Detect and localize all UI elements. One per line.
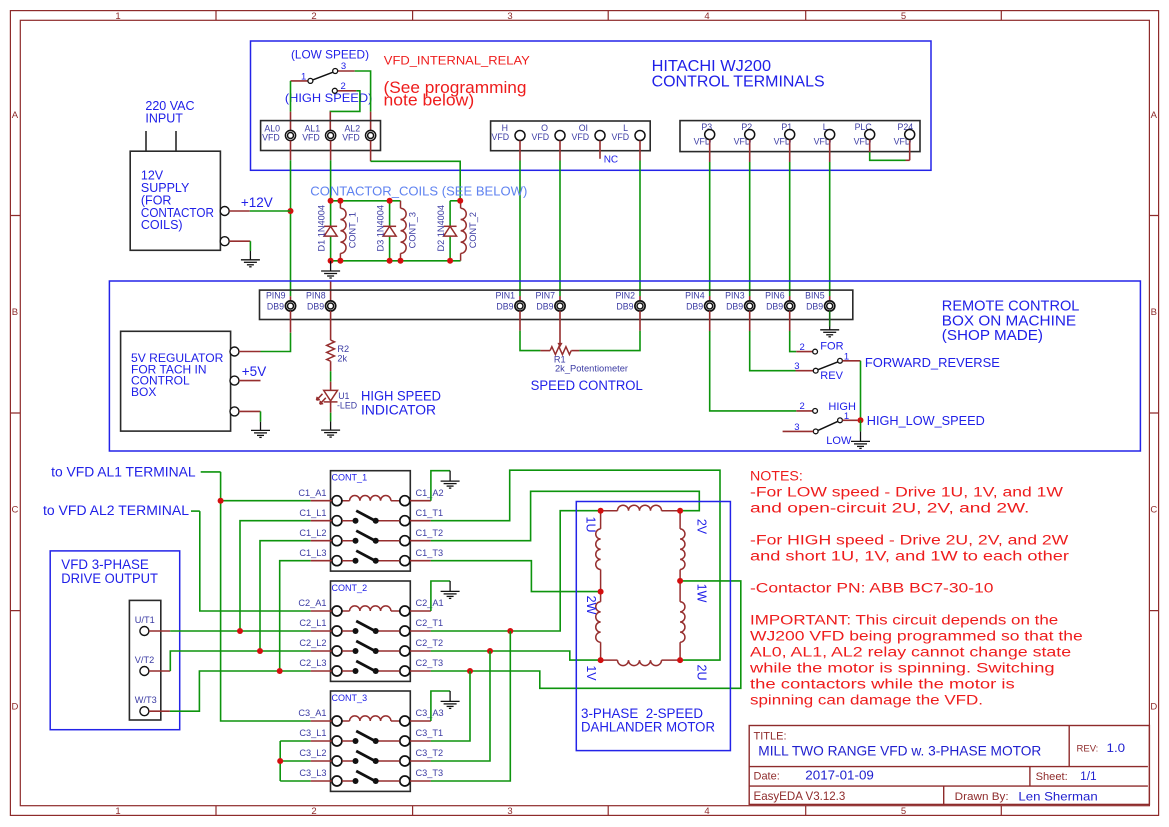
svg-text:5: 5 [901,806,906,817]
svg-text:Len Sherman: Len Sherman [1018,789,1097,803]
svg-text:REV: REV [820,370,843,382]
svg-text:REV:: REV: [1077,743,1099,754]
wire R2 to LED [330,361,332,371]
svg-text:AL0, AL1, AL2 relay cannot cha: AL0, AL1, AL2 relay cannot change state [750,645,1071,661]
diode D1 wire [330,201,332,261]
LED U1 [317,390,338,404]
title block [749,726,1149,805]
svg-text:Drawn By:: Drawn By: [955,791,1009,803]
svg-text:BOX ON MACHINE: BOX ON MACHINE [942,313,1077,329]
svg-text:C1_T2: C1_T2 [416,528,444,538]
node 2W [598,589,604,595]
node HIGH pin1 junction [858,417,864,423]
svg-text:and short 1U, 1V, and 1W to ea: and short 1U, 1V, and 1W to each other [750,549,1069,565]
PLC pin [865,130,875,140]
svg-text:DB9: DB9 [616,301,633,311]
node CONT_1 coil top [337,198,343,204]
wire 12V gnd red [229,240,250,242]
svg-text:C1_T1: C1_T1 [416,508,444,518]
AL1 pin [326,130,336,140]
PIN6 DB9 pin [785,301,795,311]
svg-text:C1_A2: C1_A2 [416,488,444,498]
svg-text:DB9: DB9 [267,301,284,311]
wire R1 to PIN2 [571,350,579,352]
L pin [635,131,645,141]
HITACHI control terminals box [251,41,932,170]
wire LED to ground [330,402,332,413]
svg-text:EasyEDA V3.12.3: EasyEDA V3.12.3 [754,789,846,803]
PIN7 DB9 pin [555,301,565,311]
svg-text:IMPORTANT: This circuit depend: IMPORTANT: This circuit depends on the [750,613,1058,629]
svg-text:1W: 1W [695,584,709,603]
svg-text:MILL TWO RANGE VFD w. 3-PHASE: MILL TWO RANGE VFD w. 3-PHASE MOTOR [758,743,1041,759]
svg-text:DB9: DB9 [686,301,703,311]
wire +12V green [250,210,291,212]
svg-text:VFD 3-PHASE: VFD 3-PHASE [61,557,149,572]
svg-text:1V: 1V [584,665,598,681]
svg-text:2k_Potentiometer: 2k_Potentiometer [555,364,628,374]
wire AL2 tag stub [191,510,200,512]
coils top rail right [450,200,461,202]
svg-text:C2_T3: C2_T3 [416,658,444,668]
node +12V junction [288,208,294,214]
node D3 top [387,198,393,204]
wire W/T3 to C1_L3/C2_L3 [149,710,170,712]
wire C2_T2 to 1V [431,651,601,660]
node CONT_1 coil bottom [337,258,343,264]
svg-text:D: D [11,702,18,713]
NC stub on OI [599,141,601,159]
diode D2 [444,226,457,236]
motor winding right lower [680,602,685,643]
OI pin [595,131,605,141]
svg-text:PIN9: PIN9 [266,290,286,300]
node D2 bottom [447,258,453,264]
node C2_T2/C3_T2 [487,648,493,654]
svg-text:VFD: VFD [491,132,509,142]
PIN9 DB9 pin [285,301,295,311]
wire C1_T3 to 2W [431,561,601,592]
svg-text:PIN3: PIN3 [725,290,745,300]
PIN3 DB9 pin [745,301,755,311]
node 2U [677,657,683,663]
wire AL1 vertical to C1_A1 and C3_A1 [221,472,311,721]
svg-text:C3_T2: C3_T2 [416,748,444,758]
svg-text:C3_L2: C3_L2 [299,748,326,758]
svg-text:DB9: DB9 [496,301,513,311]
svg-text:CONT_1: CONT_1 [332,473,368,484]
svg-text:C3_A1: C3_A1 [298,708,326,718]
ground HIGH_LOW [851,431,870,448]
svg-text:PIN4: PIN4 [685,290,705,300]
svg-text:C1_T3: C1_T3 [416,548,444,558]
svg-text:2W: 2W [584,596,598,615]
svg-text:HIGH_LOW_SPEED: HIGH_LOW_SPEED [867,413,985,428]
wire AL2 vertical to C2_A1 [200,511,311,611]
contactor CONT_2 [298,581,443,681]
diode D1 [324,226,337,236]
svg-text:CONT_2: CONT_2 [332,583,368,594]
svg-text:D2 1N4004: D2 1N4004 [436,205,446,251]
wire C3_L1-L2-L3 tie [280,741,311,781]
svg-text:BIN5: BIN5 [805,290,825,300]
wire +12V red [229,210,250,212]
R1 wiper wire [559,311,561,344]
wire AL2 to CONT_2 coil [370,141,372,162]
node CONT_3 coil bottom [398,258,404,264]
svg-text:C1_L2: C1_L2 [299,528,326,538]
svg-text:2: 2 [341,81,346,92]
12V supply terminal 2 [220,237,229,246]
svg-text:COILS): COILS) [141,218,183,232]
wire PIN9 to 5V reg [290,311,292,333]
O pin [555,131,565,141]
svg-text:Sheet:: Sheet: [1036,771,1068,783]
relay SW1 pin3 [333,69,338,74]
coils top rail [331,200,401,202]
wire FOR pin1 down to HIGH pin1 [842,360,860,362]
wire L to BIN5 [829,140,831,163]
svg-text:C3_T3: C3_T3 [416,768,444,778]
svg-text:note below): note below) [384,91,475,110]
wire PIN6 to FOR [789,311,791,331]
svg-text:C2_L3: C2_L3 [299,658,326,668]
wire C2_A1 to ground [431,581,450,611]
wire U/T1 to C1_L1/C2_L1 [149,630,170,632]
5V regulator terminals [230,347,239,356]
contactor coil CONT_3 [400,201,402,261]
svg-text:FOR: FOR [820,341,843,353]
remote control box [109,281,1140,451]
wire into PIN8 from coil ground [330,282,332,301]
diode D3 wire [389,201,391,261]
ground C3_A3 [441,691,460,708]
wire relay pin1 to AL0 (green) [290,81,292,112]
relay SW1 pin2 [332,88,337,93]
svg-text:HIGH SPEED: HIGH SPEED [361,388,441,403]
svg-text:U1: U1 [338,391,349,401]
svg-text:C2_L2: C2_L2 [299,638,326,648]
svg-text:C1_A1: C1_A1 [298,488,326,498]
wire HIGH pin1 to ground [842,419,857,421]
diode D2 wire [449,201,451,261]
svg-text:INPUT: INPUT [145,111,183,125]
wire C1_T2 to 2V [431,491,699,540]
svg-text:CONTROL TERMINALS: CONTROL TERMINALS [652,74,825,91]
svg-text:2U: 2U [695,665,709,681]
contactor CONT_1 [298,471,443,571]
node AL1/C1_A1 [218,498,224,504]
ground LED [321,421,340,437]
svg-text:REMOTE CONTROL: REMOTE CONTROL [942,299,1080,315]
coils bottom rail [331,260,461,262]
motor winding right upper [679,511,681,660]
svg-text:V/T2: V/T2 [135,655,154,665]
svg-text:3: 3 [507,806,512,817]
H pin [515,131,525,141]
wire relay pin2 to AL1 (green) [330,91,360,112]
svg-text:1: 1 [301,71,306,82]
svg-text:2k: 2k [337,354,347,364]
svg-text:LOW: LOW [826,435,852,447]
terminal block P3-P24 [680,121,920,152]
220VAC input stubs [146,131,176,151]
svg-text:2V: 2V [695,519,709,535]
AL2 pin [366,130,376,140]
svg-text:(SHOP MADE): (SHOP MADE) [942,328,1043,344]
PLC-P24 jumper wire red [870,140,910,161]
relay SW1 pin1 [308,78,313,83]
svg-text:FORWARD_REVERSE: FORWARD_REVERSE [865,355,1000,370]
svg-text:D3 1N4004: D3 1N4004 [375,205,385,251]
svg-text:B: B [12,307,18,318]
svg-text:DB9: DB9 [806,301,823,311]
node V/T2 branch [257,648,263,654]
potentiometer R1 [550,347,571,355]
wire AL0 to PIN9 [290,141,292,161]
svg-text:PIN6: PIN6 [765,290,785,300]
svg-text:VFD: VFD [302,133,320,143]
wire O to PIN7 [559,141,561,161]
switch FORWARD_REVERSE lever [818,362,838,370]
HIGH pin3 [813,429,818,434]
svg-text:3-PHASE 2-SPEED: 3-PHASE 2-SPEED [581,706,703,721]
svg-text:CONT_3: CONT_3 [408,212,418,248]
wire L to PIN2 [639,141,641,161]
svg-text:SPEED CONTROL: SPEED CONTROL [531,378,644,393]
svg-text:CONT_2: CONT_2 [468,212,478,248]
svg-text:PIN7: PIN7 [535,290,555,300]
wire V/T2 to C1_L2/C2_L2 [149,670,170,672]
svg-text:W/T3: W/T3 [135,695,157,705]
wire +5V stub [239,380,261,382]
svg-text:CONTACTOR_COILS (SEE BELOW): CONTACTOR_COILS (SEE BELOW) [310,183,527,198]
node 2V [677,508,683,514]
diode D3 [383,226,396,236]
svg-text:C3_T1: C3_T1 [416,728,444,738]
svg-text:DAHLANDER MOTOR: DAHLANDER MOTOR [581,720,715,735]
PIN8 DB9 pin [326,301,336,311]
contactor coil CONT_1 [339,201,341,261]
svg-text:+12V: +12V [241,195,273,210]
wire C1_A2 to ground [431,471,450,501]
PIN1 DB9 pin [515,301,525,311]
svg-text:-For HIGH speed - Drive 2U, 2V: -For HIGH speed - Drive 2U, 2V, and 2W [750,533,1069,549]
P2 pin [745,130,755,140]
svg-text:DB9: DB9 [766,301,783,311]
svg-text:U/T1: U/T1 [135,615,155,625]
svg-text:2: 2 [311,806,316,817]
svg-text:PIN1: PIN1 [495,290,515,300]
svg-text:+5V: +5V [242,364,266,379]
ground C2_A1 [441,581,460,598]
svg-text:4: 4 [704,11,709,22]
svg-text:1: 1 [115,11,120,22]
HIGH pin2 [813,409,818,414]
svg-text:C1_L1: C1_L1 [299,508,326,518]
V/T2 pin [140,667,149,676]
node C3_L2 [277,758,283,764]
ground 12V supply [241,251,260,267]
wire C2_T3 to 1W [431,581,741,688]
svg-text:C2_A1: C2_A1 [298,598,326,608]
P3 pin [705,130,715,140]
svg-text:2: 2 [311,11,316,22]
svg-text:PIN8: PIN8 [306,290,326,300]
switch HIGH_LOW lever [818,421,838,430]
svg-text:1.0: 1.0 [1107,741,1126,755]
relay SW1 pin1 wire [291,80,308,82]
svg-text:C: C [1150,505,1157,516]
wire P2 to PIN3 [749,140,751,163]
svg-text:DRIVE OUTPUT: DRIVE OUTPUT [61,571,158,586]
12V supply terminal 1 [220,207,229,216]
wire C1_T1 to 2U [431,470,720,660]
node W/T3 branch [277,668,283,674]
svg-text:C2_A1: C2_A1 [416,598,444,608]
FOR pin2 [813,349,818,354]
wire relay pin3 to AL2 (red) [370,112,372,131]
svg-text:-For LOW speed - Drive 1U, 1V,: -For LOW speed - Drive 1U, 1V, and 1W [750,485,1064,501]
LOW pin3 stub [783,430,814,432]
terminal block AL0-AL2 [261,121,381,151]
svg-text:VFD: VFD [611,132,629,142]
terminal block H-O-OI-L [491,121,651,151]
HIGH pin1 [838,418,843,423]
wire BIN5 to ground [829,311,831,327]
BIN5 DB9 pin [825,301,835,311]
svg-text:3: 3 [794,361,799,372]
svg-text:to VFD AL1 TERMINAL: to VFD AL1 TERMINAL [51,464,196,479]
svg-text:HITACHI WJ200: HITACHI WJ200 [652,58,772,75]
node 1V [598,657,604,663]
wire 12V gnd green [249,241,251,251]
node C2_T3/C3_T1 [467,668,473,674]
wire AL1 tag stub [201,471,221,473]
svg-text:D: D [1150,702,1157,713]
ground C1_A2 [441,471,460,488]
svg-text:A: A [1151,110,1158,121]
wire H to PIN1 [519,141,521,161]
wire PIN4 to HIGH [709,311,711,331]
U/T1 pin [140,627,149,636]
relay SW1 pin2 wire [337,90,356,92]
svg-text:2: 2 [800,342,805,353]
svg-text:INDICATOR: INDICATOR [361,403,436,418]
AL0 pin [285,130,295,140]
svg-text:CONT_3: CONT_3 [332,693,368,704]
svg-text:DB9: DB9 [307,301,324,311]
svg-text:DB9: DB9 [726,301,743,311]
svg-text:CONT_1: CONT_1 [348,212,358,248]
wire 5Vreg gnd [239,410,261,412]
FOR pin1 [838,358,843,363]
motor box [576,502,730,751]
svg-text:D1 1N4004: D1 1N4004 [316,205,326,251]
PLC-P24 jumper wire green [870,152,906,160]
wire P1 to PIN6 [789,140,791,163]
wire PIN3 to REV [749,311,751,331]
svg-text:3: 3 [341,61,346,72]
svg-text:spinning can damage the VFD.: spinning can damage the VFD. [750,693,983,709]
node 1W [677,578,683,584]
ruler ticks left [10,216,20,611]
svg-text:C2_T1: C2_T1 [416,618,444,628]
svg-text:2017-01-09: 2017-01-09 [805,769,874,783]
motor winding top [601,510,681,512]
wire relay pin2 to AL1 (red) [329,112,331,131]
DB9 terminal strip [260,290,853,319]
svg-text:the contactors while the motor: the contactors while the motor is [750,677,1015,693]
P24 pin [905,130,915,140]
svg-text:PIN2: PIN2 [615,290,635,300]
node C2_T1/C3_T3 [507,628,513,634]
svg-text:VFD: VFD [571,132,589,142]
svg-text:-Contactor PN: ABB BC7-30-10: -Contactor PN: ABB BC7-30-10 [750,581,994,597]
wire PIN1 to R1 [519,311,521,331]
FOR pin3 [813,368,818,373]
svg-text:NOTES:: NOTES: [750,469,803,485]
motor winding left lower [596,602,601,643]
P1 pin [785,130,795,140]
svg-text:-LED: -LED [337,401,357,411]
L pin [825,130,835,140]
svg-text:1: 1 [115,806,120,817]
svg-text:VFD: VFD [342,133,360,143]
node D3 bottom [387,258,393,264]
ground BIN5 [820,327,839,337]
svg-text:3: 3 [507,11,512,22]
svg-text:C: C [11,505,18,516]
svg-text:B: B [1151,307,1157,318]
5V regulator box [121,331,231,431]
wire relay pin3 to AL2 (green) [355,71,371,112]
contactor coil CONT_2 [460,201,462,261]
contactor CONT_3 [298,691,443,791]
svg-text:C3_L3: C3_L3 [299,768,326,778]
svg-text:C2_T2: C2_T2 [416,638,444,648]
svg-text:C2_L1: C2_L1 [299,618,326,628]
ruler ticks right [1149,216,1158,611]
svg-text:C3_L1: C3_L1 [299,728,326,738]
svg-text:5: 5 [901,11,906,22]
wire C3_T2 riser [431,651,490,761]
PIN2 DB9 pin [635,301,645,311]
wire P3 to PIN4 [709,140,711,163]
svg-text:1U: 1U [584,517,598,533]
node CONT_2 coil top [457,198,463,204]
wire C3_T1 riser [431,671,470,741]
svg-text:1/1: 1/1 [1080,771,1097,783]
12V supply box [130,151,220,250]
ground coil rail [321,261,340,278]
motor winding left upper [600,511,602,660]
svg-text:(LOW SPEED): (LOW SPEED) [291,48,369,62]
svg-text:DB9: DB9 [536,301,553,311]
svg-text:and open-circuit 2U, 2V, and 2: and open-circuit 2U, 2V, and 2W. [750,501,1029,517]
motor winding bottom [601,659,681,661]
wire AL1 to D1 [330,141,332,161]
relay SW1 lever [313,72,333,80]
svg-text:HIGH: HIGH [828,401,856,413]
svg-text:C1_L3: C1_L3 [299,548,326,558]
node U/T1 branch [237,628,243,634]
NOTES text block [749,469,1083,709]
svg-text:VFD: VFD [262,133,280,143]
svg-text:while the motor is spinning. S: while the motor is spinning. Switching [749,661,1055,677]
wire C1_A1 branch [221,500,311,502]
svg-text:WJ200 VFD being programmed so: WJ200 VFD being programmed so that the [750,629,1083,645]
